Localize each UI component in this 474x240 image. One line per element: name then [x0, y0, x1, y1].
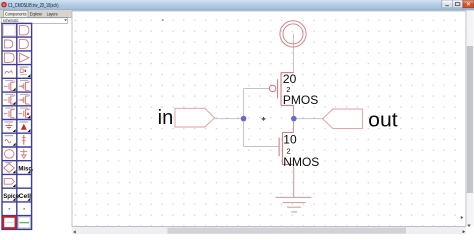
- transistor PMOS M1: [269, 73, 293, 106]
- power vdd symbol: [280, 21, 306, 47]
- wire: to PMOS gate: [244, 88, 270, 90]
- svg-text:in: in: [158, 107, 174, 129]
- grid dots: [73, 12, 466, 227]
- label in: [158, 107, 174, 129]
- port in: [175, 108, 215, 127]
- label NMOS name: [283, 155, 319, 169]
- label PMOS width 20: [283, 72, 297, 86]
- svg-text:Misc.: Misc.: [18, 166, 33, 172]
- label out: [368, 109, 398, 131]
- svg-text:Layers: Layers: [47, 11, 59, 16]
- app icon: [1, 2, 7, 8]
- label PMOS length 2: [286, 85, 290, 94]
- active tab Components: [3, 10, 28, 17]
- svg-text:PMOS: PMOS: [283, 93, 318, 107]
- wire: NMOS drain to output node: [293, 119, 295, 133]
- close button: [463, 0, 474, 8]
- component palette grid: [2, 23, 34, 229]
- wire: input node vertical bus: [243, 89, 245, 147]
- wire: in port to input node: [215, 118, 244, 120]
- transistor NMOS M2: [279, 132, 293, 165]
- origin marker: [262, 117, 266, 121]
- svg-text:20: 20: [283, 72, 297, 86]
- vertical scrollbar: [466, 11, 473, 227]
- svg-text:NMOS: NMOS: [283, 155, 319, 169]
- schematic combobox: [1, 18, 67, 24]
- port out: [323, 109, 363, 129]
- wire: output node to out port: [294, 118, 323, 120]
- minimize button: [442, 0, 453, 8]
- dark reference dot: [162, 19, 164, 21]
- title bar: [0, 0, 474, 10]
- svg-text:Components: Components: [5, 11, 27, 16]
- canvas border: [72, 11, 466, 227]
- horizontal scrollbar: [72, 227, 466, 234]
- label NMOS width 10: [283, 132, 297, 146]
- junction node at output: [291, 116, 297, 122]
- label NMOS length 2: [287, 146, 291, 155]
- svg-text:out: out: [368, 109, 398, 131]
- maximize button: [452, 0, 463, 8]
- left panel tab strip: [0, 10, 72, 17]
- ground: [275, 197, 311, 212]
- junction node at input: [241, 116, 247, 122]
- wire: NMOS source to ground: [293, 164, 295, 197]
- wire: vdd stem: [293, 34, 295, 73]
- wire: to NMOS gate: [244, 146, 280, 148]
- svg-text:C1_CMOSLIB:inv_20_10(sch): C1_CMOSLIB:inv_20_10(sch): [8, 3, 59, 9]
- wire: PMOS drain to output node: [293, 105, 295, 118]
- svg-text:×: ×: [467, 2, 471, 8]
- svg-text:10: 10: [283, 132, 297, 146]
- svg-text:schematic: schematic: [3, 18, 19, 23]
- svg-text:Spice: Spice: [3, 194, 20, 200]
- label PMOS name: [283, 93, 318, 107]
- svg-text:Explorer: Explorer: [30, 11, 43, 16]
